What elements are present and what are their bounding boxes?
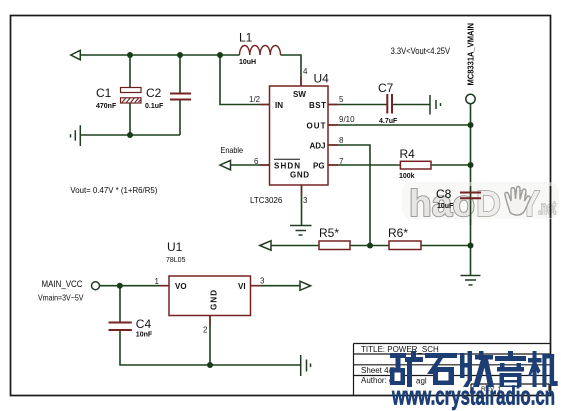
svg-text:R6*: R6* [388,226,408,240]
svg-text:TITLE: POWER_SCH: TITLE: POWER_SCH [361,345,439,354]
svg-text:R5*: R5* [319,226,339,240]
svg-text:9/10: 9/10 [339,115,355,124]
svg-text:8: 8 [339,136,344,145]
svg-text:.net: .net [538,198,556,218]
svg-text:10nF: 10nF [136,332,153,339]
svg-text:78L05: 78L05 [166,257,186,264]
svg-text:SHDN: SHDN [274,162,300,171]
svg-text:U4: U4 [314,72,330,86]
svg-text:www.crystalradio.cn: www.crystalradio.cn [391,381,555,411]
svg-text:ADJ: ADJ [310,142,326,151]
svg-text:1/2: 1/2 [249,95,261,104]
svg-text:10uF: 10uF [437,203,454,210]
svg-text:7: 7 [339,157,344,166]
svg-text:4.7uF: 4.7uF [379,118,398,125]
svg-text:D: D [476,183,501,224]
svg-text:U1: U1 [167,240,183,254]
svg-text:Author: g: Author: g [361,376,393,385]
svg-text:OUT: OUT [307,122,326,131]
svg-text:LTC3026: LTC3026 [250,196,283,205]
svg-text:1: 1 [155,277,160,286]
svg-text:100k: 100k [399,173,415,180]
svg-text:10uH: 10uH [239,59,256,66]
svg-text:Vmain=3V~5V: Vmain=3V~5V [38,293,84,303]
svg-text:SW: SW [293,90,306,99]
svg-text:5: 5 [339,95,344,104]
svg-text:4: 4 [303,67,308,76]
svg-text:6: 6 [254,157,259,166]
svg-text:VO: VO [175,282,187,291]
svg-text:3.3V<Vout<4.25V: 3.3V<Vout<4.25V [391,46,451,56]
svg-text:Enable: Enable [221,145,244,155]
svg-text:GND: GND [210,290,219,310]
svg-text:C7: C7 [378,81,394,95]
svg-text:IN: IN [275,101,283,110]
svg-text:Vout= 0.47V * (1+R6/R5): Vout= 0.47V * (1+R6/R5) [70,185,157,195]
svg-text:R4: R4 [400,147,416,161]
svg-text:C1: C1 [96,86,112,100]
svg-text:3: 3 [303,196,308,205]
svg-text:MAIN_VCC: MAIN_VCC [42,279,83,289]
svg-text:GND: GND [290,171,309,180]
svg-text:L1: L1 [239,31,253,45]
svg-text:BST: BST [309,101,326,110]
svg-text:VI: VI [238,282,246,291]
svg-text:0.1uF: 0.1uF [145,103,164,110]
svg-text:C8: C8 [436,187,452,201]
svg-text:PG: PG [313,162,325,171]
svg-text:MC8331A_VMAIN: MC8331A_VMAIN [466,23,476,86]
svg-text:470nF: 470nF [96,103,117,110]
svg-text:3: 3 [260,277,265,286]
svg-text:2: 2 [203,326,208,335]
svg-text:C4: C4 [136,317,152,331]
svg-text:C2: C2 [146,86,162,100]
